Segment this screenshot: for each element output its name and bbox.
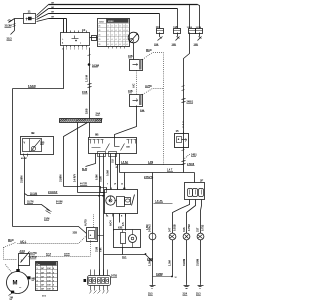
svg-text:1.5M: 1.5M (147, 260, 151, 266)
svg-text:3: 3 (66, 48, 67, 50)
svg-text:12: 12 (175, 277, 177, 279)
svg-text:31M: 31M (47, 276, 51, 278)
svg-text:AUTO: AUTO (84, 219, 87, 226)
svg-text:1.6M: 1.6M (146, 225, 149, 230)
svg-text:A/C4: A/C4 (109, 220, 112, 226)
svg-text:31: 31 (99, 30, 101, 32)
svg-text:31M: 31M (47, 272, 51, 274)
svg-text:11: 11 (28, 10, 32, 14)
svg-text:0.75M: 0.75M (188, 224, 191, 231)
svg-text:31/3M: 31/3M (5, 24, 12, 28)
svg-text:A/C: A/C (131, 83, 135, 88)
svg-text:24A: 24A (96, 112, 101, 116)
svg-text:2F: 2F (200, 178, 204, 182)
svg-text:8: 8 (53, 268, 54, 270)
svg-text:3: 3 (37, 276, 38, 278)
svg-text:24TA/2: 24TA/2 (148, 224, 151, 232)
svg-text:0.5M: 0.5M (95, 174, 98, 180)
svg-text:31M: 31M (47, 289, 51, 291)
svg-text:31/8: 31/8 (94, 246, 98, 252)
svg-text:2: 2 (37, 272, 38, 274)
svg-text:GU/8: GU/8 (99, 176, 102, 182)
svg-text:0.75S: 0.75S (202, 224, 205, 231)
svg-text:14 R/Y: 14 R/Y (72, 174, 76, 182)
svg-text:3: 3 (86, 48, 87, 50)
svg-text:31M: 31M (47, 268, 51, 270)
svg-text:11/8: 11/8 (156, 27, 161, 29)
svg-text:8: 8 (53, 276, 54, 278)
svg-text:31: 31 (99, 44, 101, 46)
svg-text:14B: 14B (126, 146, 130, 149)
svg-text:31M: 31M (47, 281, 51, 283)
svg-text:5: 5 (37, 285, 38, 287)
svg-text:1.5M: 1.5M (167, 260, 171, 266)
svg-text:8: 8 (53, 289, 54, 291)
svg-text:63B: 63B (118, 226, 123, 229)
svg-text:24T: 24T (167, 227, 171, 232)
svg-text:31: 31 (99, 39, 101, 41)
svg-text:8B: 8B (95, 132, 99, 136)
svg-text:31/8M: 31/8M (58, 174, 62, 182)
svg-text:103M: 103M (92, 63, 100, 67)
svg-text:31/4M: 31/4M (182, 259, 186, 266)
svg-text:8: 8 (53, 281, 54, 283)
svg-text:XXXX: XXXX (108, 21, 114, 23)
svg-text:3: 3 (78, 48, 79, 50)
svg-text:7: 7 (107, 184, 108, 186)
svg-text:3B: 3B (31, 131, 35, 135)
svg-text:32B: 32B (73, 232, 78, 235)
svg-text:3: 3 (70, 48, 71, 50)
svg-text:31T: 31T (195, 227, 199, 232)
svg-text:31/3M: 31/3M (195, 259, 199, 266)
svg-text:1: 1 (37, 268, 38, 270)
svg-text:31/8M: 31/8M (19, 175, 23, 183)
svg-text:0.5SB: 0.5SB (174, 224, 177, 231)
svg-text:31: 31 (99, 25, 101, 27)
svg-text:6: 6 (37, 289, 38, 291)
svg-text:31M: 31M (47, 285, 51, 287)
svg-text:18/8: 18/8 (85, 108, 89, 114)
svg-text:30: 30 (121, 184, 123, 186)
svg-text:Y/R: Y/R (98, 248, 102, 252)
svg-text:31S: 31S (182, 227, 186, 232)
svg-text:M: M (13, 281, 18, 287)
svg-text:31: 31 (99, 35, 101, 37)
svg-text:8: 8 (53, 285, 54, 287)
svg-text:1.5 M: 1.5 M (85, 74, 89, 82)
svg-text:31/3: 31/3 (7, 37, 13, 41)
svg-text:3: 3 (74, 48, 75, 50)
svg-text:8: 8 (53, 272, 54, 274)
svg-text:11/18: 11/18 (196, 27, 202, 29)
svg-text:GU: GU (111, 159, 114, 163)
svg-text:15/8: 15/8 (82, 90, 88, 94)
svg-text:15: 15 (176, 129, 180, 133)
svg-text:0.5M: 0.5M (105, 170, 109, 176)
svg-text:3: 3 (62, 48, 63, 50)
svg-text:3: 3 (82, 48, 83, 50)
